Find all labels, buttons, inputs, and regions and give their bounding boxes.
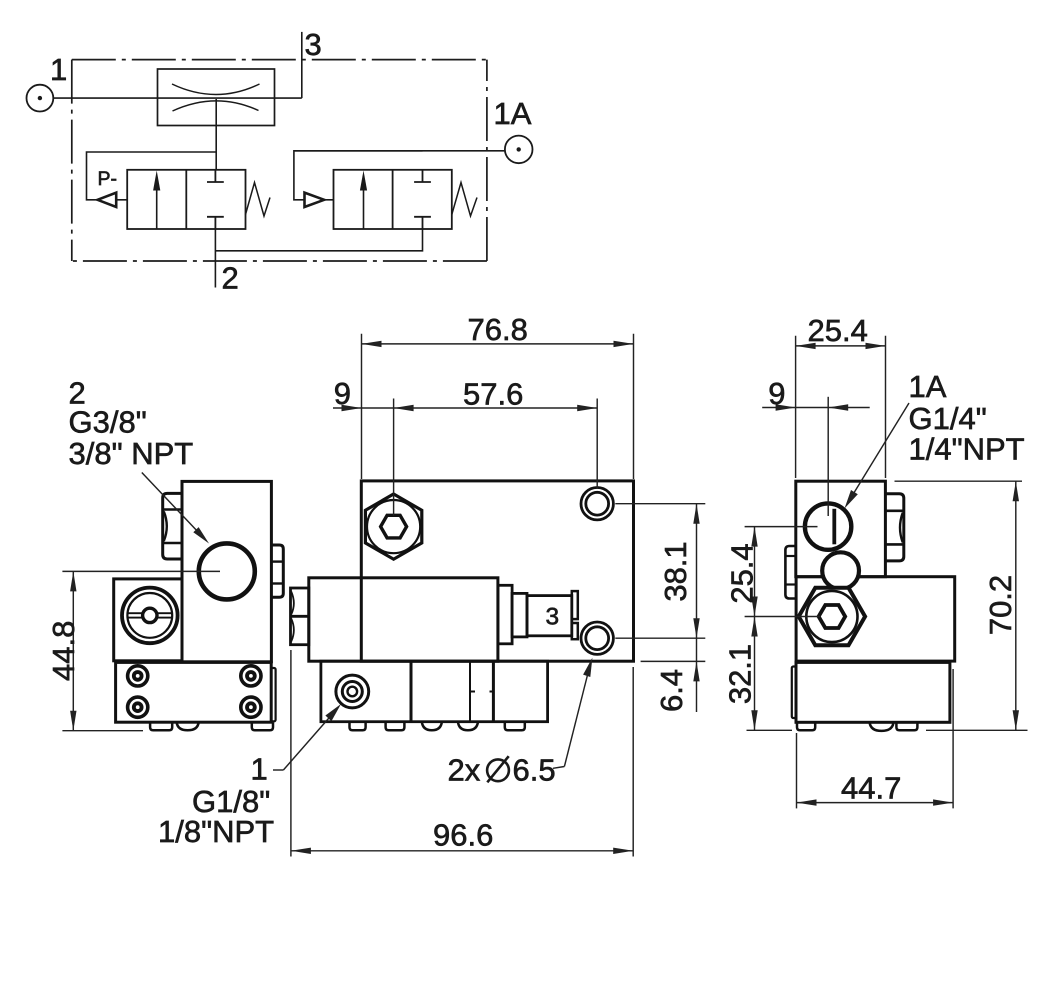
svg-text:57.6: 57.6 [463, 376, 523, 411]
sub-base tabs [350, 722, 525, 731]
body left hex end [291, 588, 309, 645]
dim 32.1 [747, 617, 1028, 731]
hex bolt B2 [799, 588, 865, 646]
svg-text:70.2: 70.2 [983, 575, 1018, 635]
valve V2 flow arrow [360, 171, 367, 229]
valve V2 body [334, 170, 452, 229]
pilot wire V2 [294, 151, 423, 200]
leader 1A [852, 403, 909, 496]
dim 38.1 [615, 504, 705, 639]
knob block [114, 579, 182, 661]
port 3 plug neck [512, 593, 527, 637]
port 3 end clip [572, 591, 578, 639]
wire port1 to node 3 [53, 97, 301, 99]
svg-text:44.7: 44.7 [841, 770, 901, 805]
pilot arrow V2 [305, 193, 325, 207]
svg-text:38.1: 38.1 [658, 541, 693, 601]
port 1A circle [505, 136, 533, 164]
flow restrictor venturi curves [172, 84, 260, 111]
svg-text:9: 9 [768, 376, 785, 411]
mounting hole top (6.5) [581, 488, 613, 520]
hex bolt B1 socket [381, 515, 407, 538]
right view side nut [885, 494, 903, 561]
port 2 bore circle [199, 543, 255, 599]
middle circle boss [822, 552, 859, 589]
pilot arrow V1 [98, 193, 117, 207]
leader 2x 6.5 [553, 673, 588, 768]
mounting plate outline [361, 481, 633, 661]
sub-base block [321, 661, 548, 722]
screw S3 [128, 697, 148, 717]
flange tabs [150, 722, 273, 730]
svg-text:P-: P- [98, 168, 118, 190]
hex bolt head B1 [365, 494, 421, 559]
svg-text:32.1: 32.1 [723, 644, 758, 704]
port 1A bore [805, 503, 851, 549]
svg-text:1/8"NPT: 1/8"NPT [158, 814, 274, 849]
dim 44.7 [797, 669, 954, 808]
dim 96.6 [291, 650, 633, 857]
svg-text:6.5: 6.5 [513, 752, 556, 787]
svg-text:44.8: 44.8 [46, 621, 81, 681]
hex bolt B2 circle [806, 591, 857, 642]
flange right strip [271, 668, 275, 721]
svg-text:96.6: 96.6 [433, 818, 493, 853]
svg-text:3: 3 [546, 604, 560, 631]
svg-text:1A: 1A [494, 96, 532, 131]
svg-text:3/8" NPT: 3/8" NPT [69, 436, 194, 471]
flow restrictor body [158, 69, 275, 126]
dim 76.8 [362, 334, 634, 479]
wire to port 1A [294, 150, 505, 152]
valve V1 flow arrow [153, 171, 160, 229]
valve V1 blocked ports [207, 170, 224, 229]
hex bolt B1 washer circle [367, 500, 420, 553]
pilot wire V1 [87, 152, 217, 200]
mounting hole bottom (6.5) [581, 622, 613, 654]
port 1 hole [336, 675, 369, 708]
dim 70.2 [895, 481, 1023, 730]
svg-text:2x: 2x [448, 752, 481, 787]
adjustment knob [122, 588, 178, 644]
svg-text:G3/8": G3/8" [69, 404, 147, 439]
screw S4 [241, 697, 261, 717]
screw S2 [241, 666, 261, 686]
dim 25.4 top [796, 336, 886, 478]
svg-text:25.4: 25.4 [808, 313, 868, 348]
middle block [796, 577, 955, 661]
label port 2 leader [142, 473, 200, 535]
svg-text:9: 9 [334, 376, 351, 411]
left view side nut [163, 493, 182, 559]
wire port 2 link [215, 229, 422, 251]
svg-text:1: 1 [50, 52, 67, 87]
port 1 circle [27, 85, 54, 112]
enclosure phantom border [72, 60, 487, 261]
wire node 3 riser [301, 32, 303, 98]
valve V2 blocked ports [414, 170, 431, 229]
right view left tab [785, 546, 795, 599]
svg-text:76.8: 76.8 [468, 312, 528, 347]
svg-text:3: 3 [305, 27, 322, 62]
dim 44.8 [62, 571, 220, 730]
screw S1 [128, 666, 148, 686]
wire venturi to valve V1 [215, 99, 217, 170]
label 2x diameter 6.5 [448, 752, 556, 787]
svg-text:25.4: 25.4 [725, 543, 760, 603]
wire port 2 drop [214, 229, 216, 288]
dim 9 right view [762, 397, 870, 516]
svg-text:1: 1 [251, 751, 268, 786]
svg-text:2: 2 [222, 261, 239, 296]
dim 6.4 [641, 638, 706, 712]
valve V1 spring [246, 183, 271, 217]
right sub-base tabs [797, 722, 917, 731]
label port 1 leader [273, 715, 332, 771]
left view tall block [182, 481, 271, 661]
right view top block [796, 481, 886, 577]
port 3 plug body [527, 596, 572, 636]
port 3 stub side view [271, 545, 283, 597]
valve V2 spring [452, 183, 477, 217]
svg-text:1A: 1A [909, 369, 947, 404]
hex bolt B2 socket [819, 605, 846, 628]
port 3 plug step [498, 585, 512, 644]
dim 57.6 and 9 [333, 399, 597, 516]
svg-text:6.4: 6.4 [654, 669, 689, 712]
right sub-base [792, 662, 950, 722]
valve V1 body [127, 170, 245, 229]
dim 25.4 left [745, 527, 820, 617]
svg-text:1/4"NPT: 1/4"NPT [909, 431, 1025, 466]
flange block [116, 662, 272, 722]
valve main body [309, 578, 498, 661]
